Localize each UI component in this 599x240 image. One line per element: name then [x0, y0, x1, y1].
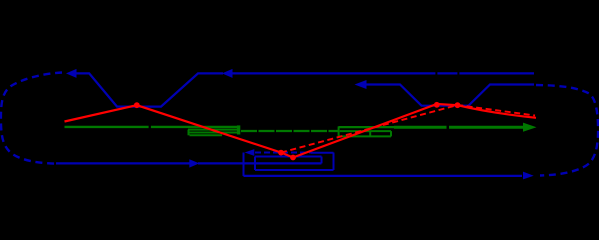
ring top straight line (beam pass 1, leftward): [76, 73, 534, 106]
green pickup coil left vertical: [188, 130, 190, 136]
red particle dot A: [134, 102, 140, 108]
green beam axis incoming line: [65, 126, 238, 128]
ring left dashed cap: [1, 73, 62, 164]
red particle dot C2: [455, 102, 461, 108]
green pickup coil right end bar: [237, 125, 240, 134]
green output arrowhead: [523, 123, 537, 132]
green dashed axis midsection: [241, 130, 339, 132]
blue coil (cavity) dashed internal pass with arrow: [255, 152, 311, 154]
second top line (beam pass 2, leftward) with terminal arrow: [365, 85, 534, 106]
blue coil left outer vertical: [243, 153, 245, 177]
blue coil outer right vertical: [333, 153, 335, 171]
red particle dot C1: [434, 102, 440, 108]
arrow on top-left line: [66, 69, 77, 78]
blue coil inner top horizontal: [255, 156, 322, 158]
red particle trajectory solid: [65, 104, 537, 158]
red particle dot B2: [290, 155, 296, 161]
green kicker coil bottom line: [339, 135, 391, 137]
red particle trajectory dashed: [281, 105, 535, 153]
green kicker coil right vertical: [390, 131, 392, 136]
red particle dot B1: [278, 150, 284, 156]
ring bottom-left straight line (beam pass 1, rightward): [56, 162, 322, 164]
green pickup coil line 4: [190, 134, 223, 136]
green pickup coil line 2: [188, 129, 240, 131]
arrow on bottom-right line: [523, 172, 534, 180]
green kicker coil middle line: [340, 130, 391, 132]
blue coil inner bottom horizontal: [255, 169, 334, 171]
blue coil inner left vertical: [254, 157, 256, 171]
green kicker coil inner vertical: [369, 131, 371, 136]
arrow on bottom-left line: [189, 159, 199, 167]
green kicker coil top line / output shaft: [339, 126, 396, 128]
ring right dashed cap: [536, 85, 598, 176]
arrow on top-middle line: [222, 69, 233, 78]
green kicker coil left vertical: [338, 126, 340, 136]
green pickup coil line 3: [190, 132, 238, 134]
ring bottom-right straight line (beam pass 2, rightward): [244, 175, 523, 177]
blue coil inner right vertical: [321, 157, 323, 164]
